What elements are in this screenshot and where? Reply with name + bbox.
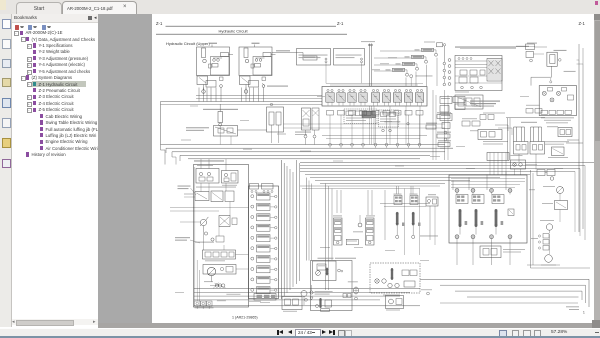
pilot valve row under bank [327, 111, 424, 116]
solenoid valve (wind-up) label [186, 127, 209, 131]
svg-text:Hydraulic Circuit: Hydraulic Circuit [218, 29, 248, 34]
status bar [0, 328, 600, 338]
pilot bus staircase [300, 163, 594, 241]
boom telescoping cylinder left [514, 127, 529, 162]
solenoid valve manifold right dashed [379, 110, 399, 132]
pressure gauge lower [541, 255, 556, 266]
main winch hydraulic unit B [239, 43, 276, 102]
header rule upper [166, 25, 337, 27]
outrigger valve box left [196, 165, 219, 183]
to swing connector [310, 285, 313, 300]
accumulator symbol [218, 104, 223, 126]
boom hoist lower valve cluster [545, 126, 572, 158]
gauge circle row [329, 115, 421, 148]
swing valve block [219, 216, 237, 227]
upper right valve assembly [448, 56, 502, 91]
svg-text:1: 1 [583, 311, 585, 315]
scattered tiny labels [175, 96, 563, 303]
swivel joint upper block [455, 92, 483, 110]
check valve label bottom [421, 289, 432, 295]
horizontal scrollbar [98, 323, 600, 328]
jack cylinder label cluster [506, 105, 545, 160]
swash plate manifold [282, 297, 302, 312]
boom hoist pilot valve top right [424, 42, 446, 47]
travel pilot manifold bottom [249, 294, 276, 302]
filter column [531, 234, 549, 251]
section label Hydraulic Circuit (Upper) [166, 41, 210, 46]
unloader valve label and leader [272, 50, 317, 60]
page number box [295, 329, 321, 338]
debooming interlock valve No.1 [415, 48, 438, 56]
bottom right footer text small [566, 306, 585, 314]
bottom window edge [0, 336, 600, 338]
relief valve tower right [410, 194, 421, 239]
travel motor front box [511, 160, 526, 169]
right riser bundle [282, 160, 300, 299]
tilt valve cluster [267, 103, 287, 143]
variable pump symbol [200, 217, 209, 232]
main pump circle cluster [203, 265, 236, 283]
grease lubrication unit [386, 296, 404, 311]
boom telescoping cylinder right [530, 127, 545, 162]
upper control valve bank [322, 83, 427, 106]
boom hoist pilot valve cluster [455, 43, 547, 62]
A-B valve block right [420, 194, 438, 245]
right small marker [595, 1, 598, 5]
page-edge wrap lines [566, 60, 583, 232]
swing brake cluster [195, 232, 224, 243]
white page [152, 14, 594, 324]
throttle valve tower right [366, 215, 376, 245]
interlock valve No.4 [386, 68, 409, 76]
solenoid valve 4WD selector labels [470, 101, 512, 145]
swivel travel wires [490, 161, 537, 176]
solenoid valve label block dark [362, 111, 409, 125]
lubricator box [542, 201, 568, 210]
lower control valve stack [249, 184, 279, 299]
4WD transmission sub-box [313, 261, 343, 281]
header rule lower [156, 33, 347, 35]
next page [322, 330, 326, 334]
staircase drop wires [307, 172, 507, 291]
outrigger valve box right [222, 171, 239, 186]
travel unit outer box [311, 258, 357, 311]
pressure switch column [443, 46, 446, 86]
page header label Z-1 mid-right [337, 21, 344, 26]
counterbalance valve pilot circle [410, 75, 433, 78]
boom hoist winch unit box [539, 86, 576, 124]
jack cylinder labels [196, 187, 236, 188]
active tab [62, 1, 137, 15]
solenoid valve manifold left dashed [344, 109, 377, 124]
interlock valve leader lines [372, 51, 421, 71]
travel brake label [178, 186, 197, 196]
right strip label boxes [426, 90, 453, 160]
interlock valve No.2 [405, 55, 428, 63]
cross connector line [380, 203, 430, 206]
svg-text:Z-1: Z-1 [337, 21, 344, 26]
svg-text:Z-1: Z-1 [579, 21, 586, 26]
bottom scrollbar of panel [12, 319, 98, 325]
to swing motor component [343, 281, 358, 300]
accumulator valve assembly left pair [295, 108, 319, 145]
mid-left connection wires [170, 183, 249, 269]
bank bottom connector lines [322, 136, 427, 139]
left pump circle large [301, 291, 307, 306]
page header label Z-1 left [156, 21, 163, 26]
interlock valve drop wires [369, 58, 437, 145]
solenoid valve block [214, 126, 268, 137]
svg-text:Z-1: Z-1 [156, 21, 163, 26]
travel brake valve cluster top right [537, 170, 555, 181]
svg-text:Hydraulic Circuit (Upper): Hydraulic Circuit (Upper) [166, 41, 210, 46]
wind-up brake solenoid block [480, 246, 525, 258]
extra bus lines upper [161, 99, 323, 105]
front winch hydraulic unit A [197, 43, 234, 102]
bookmarks panel [12, 14, 98, 327]
relief valve tower left [394, 194, 405, 239]
start tab [16, 2, 62, 15]
shoe selector valve [184, 192, 209, 201]
pilot operated valve row [203, 250, 236, 261]
corner accent [0, 0, 6, 10]
header title Hydraulic Circuit [218, 29, 248, 34]
swing brake solenoid cluster [315, 291, 333, 311]
last page [329, 330, 333, 334]
page header label Z-1 far right [579, 21, 586, 26]
legend note box luffing jib 4L-2 [334, 49, 365, 66]
right column riser wires [527, 170, 590, 268]
lower circuit section label [194, 160, 224, 161]
legend note box FL jib 4L-1 [297, 49, 331, 66]
swivel joint center block [487, 153, 523, 161]
document area background [98, 14, 600, 327]
pressure gauge upper [540, 220, 554, 233]
tree [12, 13, 98, 15]
vertical scrollbar [594, 14, 600, 327]
left small valve column [440, 97, 480, 141]
mid horizontal wires [284, 124, 446, 128]
horn solenoid valves [211, 191, 234, 202]
grease pump circle [543, 186, 564, 194]
oil cooler motor cluster [204, 281, 240, 295]
lower section outer box [194, 165, 249, 308]
swing brake leader label [175, 237, 200, 243]
left icon strip [0, 14, 12, 327]
header [12, 14, 100, 23]
prev page [288, 330, 292, 334]
accumulator (operating pressure) label [203, 109, 238, 110]
bottom bus lines [194, 289, 420, 306]
PTO pump valve row [195, 300, 226, 309]
tab bar [0, 0, 600, 15]
left riser lines [161, 102, 181, 165]
footer page number [232, 315, 258, 319]
lower right control valve bank [449, 175, 527, 265]
counterbalance valve label [262, 83, 288, 87]
winch brake cylinder [531, 50, 576, 86]
bank side relief valve [508, 189, 535, 215]
svg-text:1 (AR21-29865): 1 (AR21-29865) [232, 315, 258, 319]
toolbar icons [15, 25, 19, 30]
manifold 2 circle [346, 215, 363, 245]
snapshot icons [338, 330, 346, 338]
throttle valve tower left [333, 215, 342, 245]
return line steps right [420, 279, 589, 307]
pilot bus lines [161, 96, 446, 159]
swing unit dashed box [370, 263, 420, 296]
interlock valve No.3 [396, 62, 419, 70]
right page layout icons [499, 330, 507, 338]
first page button [277, 330, 279, 335]
pilot line riser pair [361, 41, 375, 86]
extra pilot wires [201, 44, 583, 171]
